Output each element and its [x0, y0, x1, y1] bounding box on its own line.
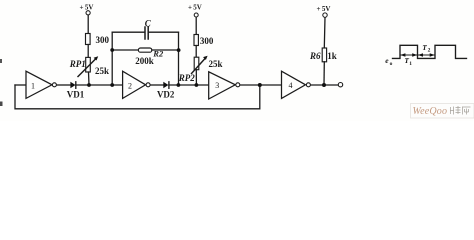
svg-text:o: o [390, 61, 393, 67]
svg-text:+: + [317, 5, 321, 13]
svg-text:1: 1 [409, 61, 412, 67]
svg-text:RP2: RP2 [178, 73, 196, 83]
svg-text:5V: 5V [322, 5, 331, 13]
svg-text:300: 300 [96, 35, 110, 45]
svg-text:5V: 5V [85, 4, 94, 12]
svg-text:+: + [80, 4, 84, 12]
svg-text:1: 1 [31, 81, 35, 90]
svg-text:VD2: VD2 [157, 89, 175, 99]
svg-text:2: 2 [428, 47, 431, 53]
svg-text:RP1: RP1 [69, 59, 86, 69]
svg-text:5V: 5V [193, 4, 202, 12]
svg-text:25k: 25k [209, 59, 223, 69]
svg-text:T: T [422, 43, 427, 52]
svg-text:C: C [145, 19, 152, 29]
svg-text:300: 300 [200, 36, 214, 46]
svg-text:+: + [188, 4, 192, 12]
svg-text:WeeQoo: WeeQoo [413, 106, 448, 117]
svg-text:4: 4 [289, 81, 293, 90]
svg-text:200k: 200k [135, 56, 154, 66]
svg-text:VD1: VD1 [67, 90, 85, 100]
svg-text:R2: R2 [152, 48, 164, 58]
svg-text:1k: 1k [327, 51, 337, 61]
svg-text:25k: 25k [95, 66, 109, 76]
svg-text:3: 3 [215, 81, 219, 90]
svg-text:2: 2 [128, 81, 132, 90]
svg-text:R6: R6 [309, 51, 321, 61]
